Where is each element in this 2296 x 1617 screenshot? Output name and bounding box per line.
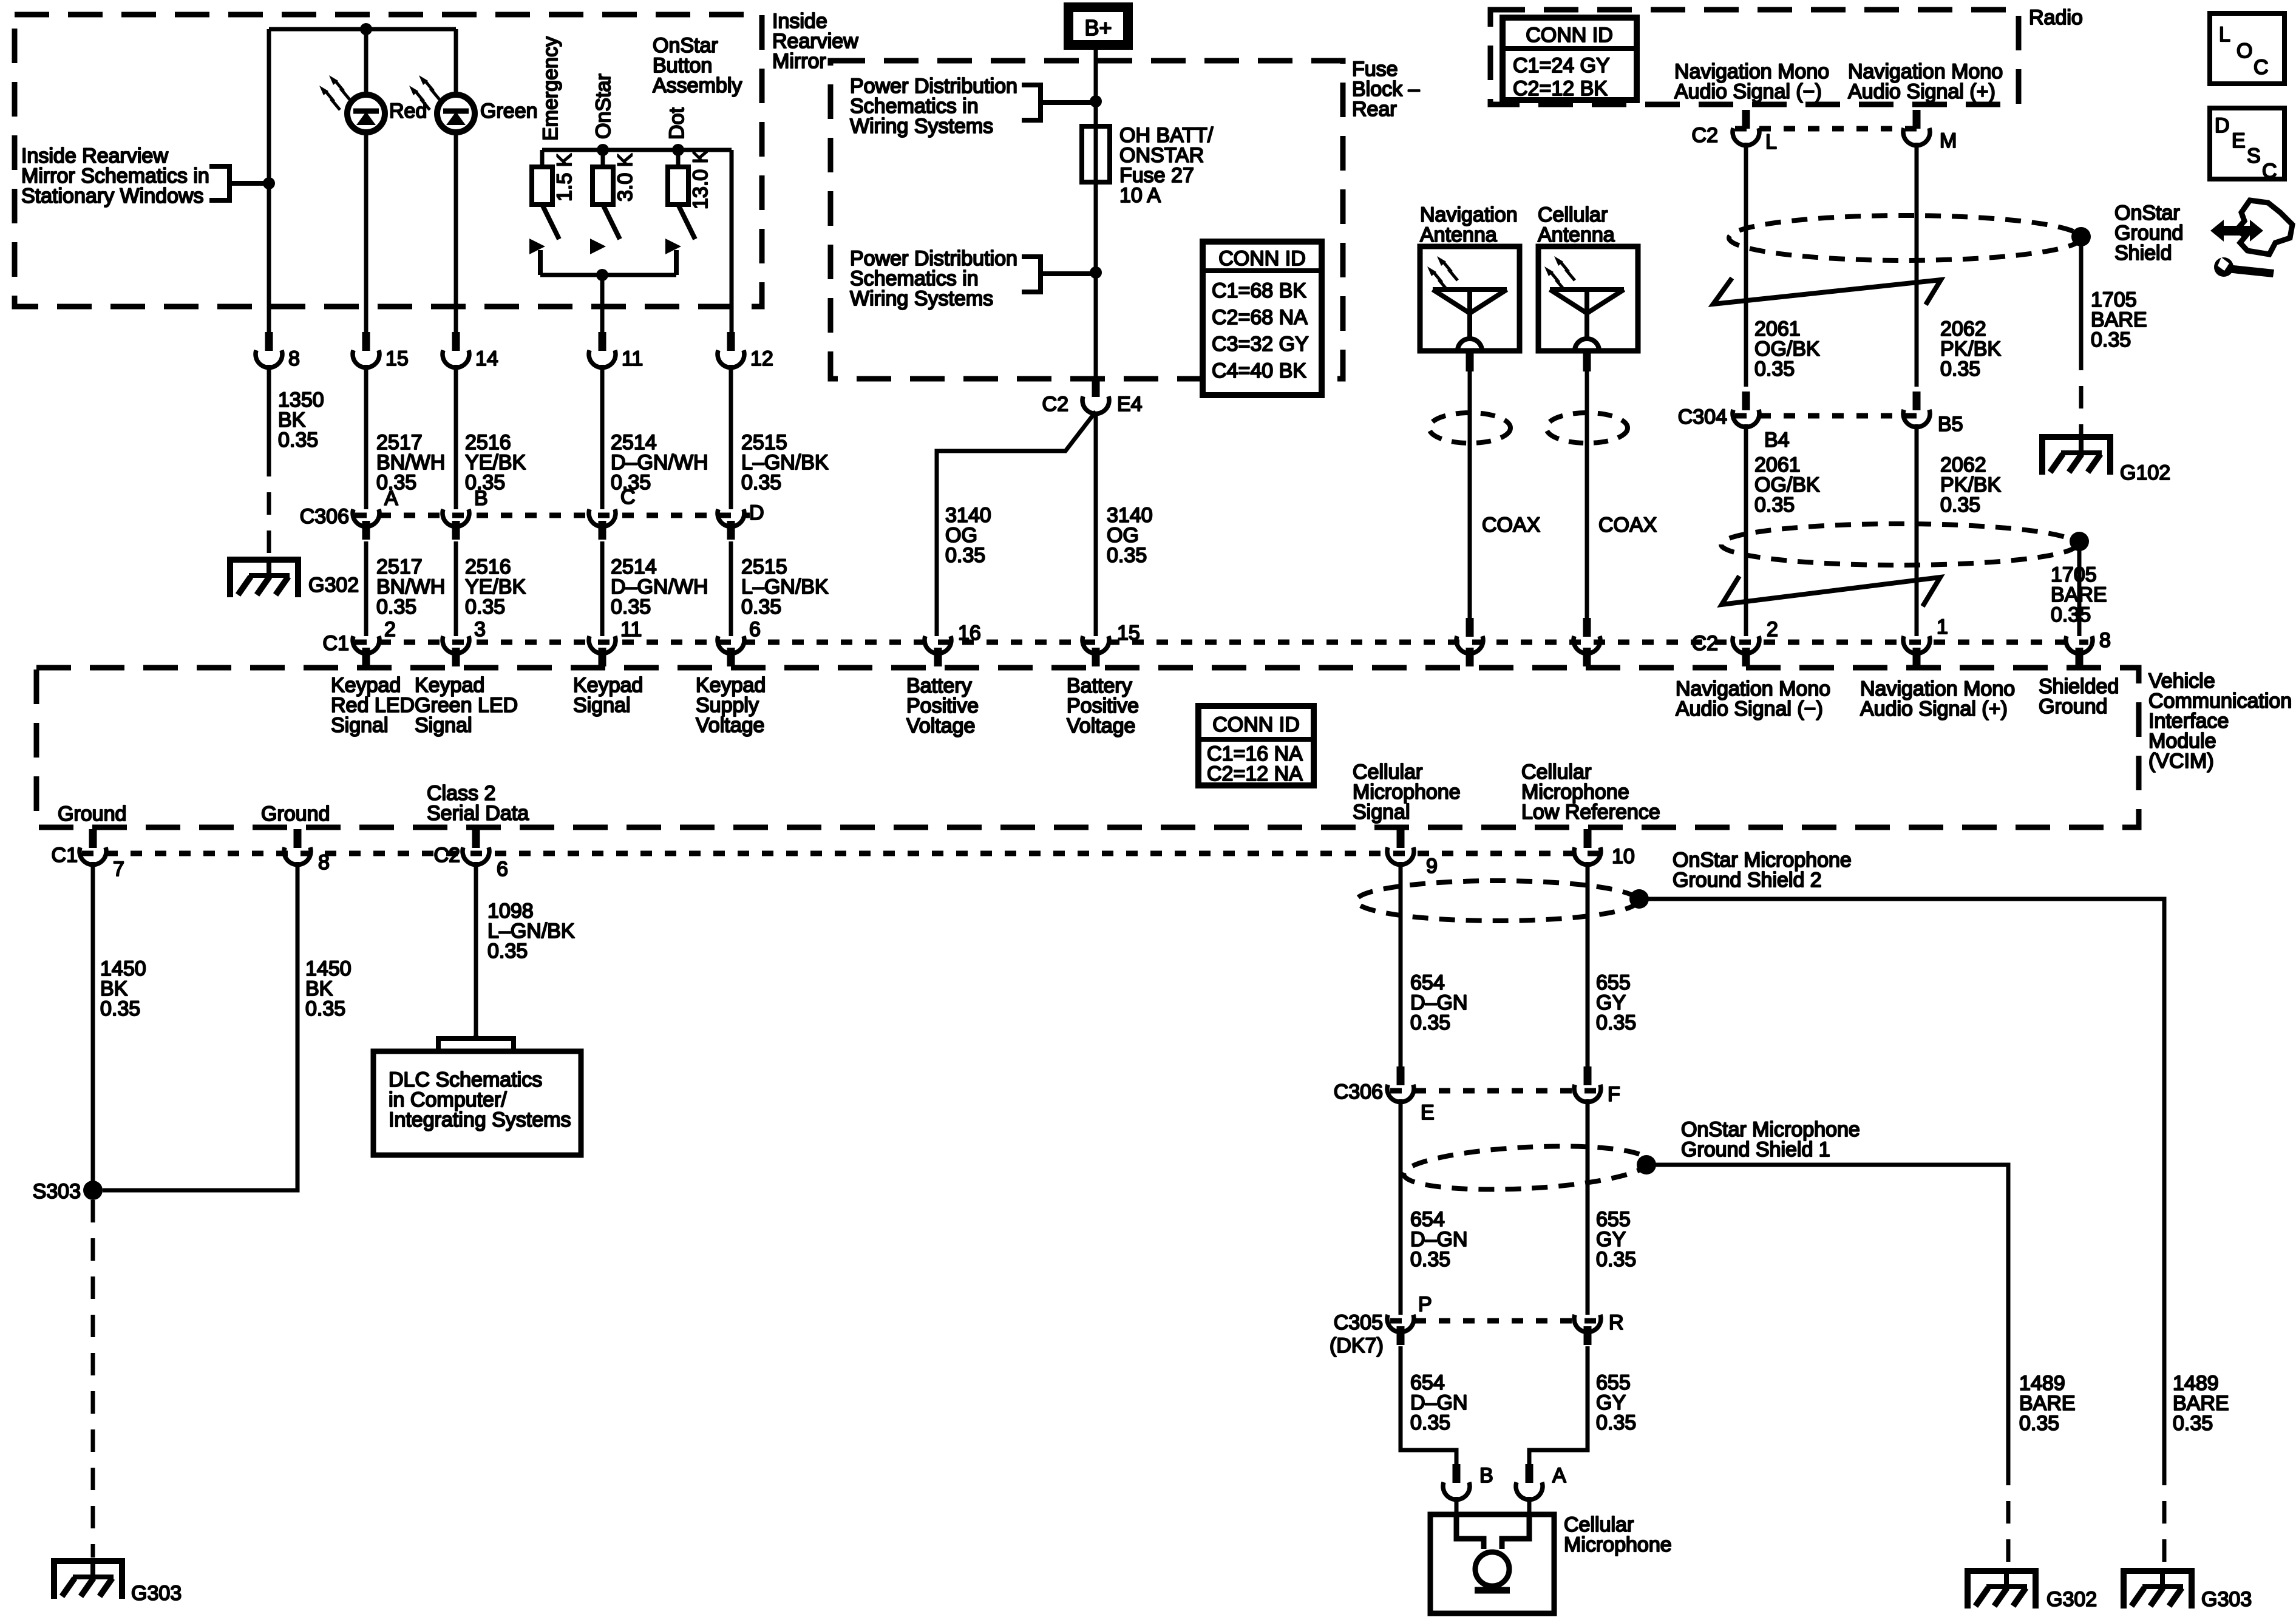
label wire 2516 YE/BK 0.35 (upper)	[465, 431, 526, 494]
svg-text:15: 15	[1117, 622, 1140, 645]
label wire 1350 BK 0.35	[278, 388, 324, 452]
wire 1450 BK left	[91, 862, 95, 1185]
label Fuse Block - Rear	[1352, 58, 1420, 121]
wire dot lower contact	[674, 250, 679, 275]
svg-text:Assembly: Assembly	[653, 74, 742, 97]
wire mic ground shield 1	[1646, 1165, 2008, 1463]
svg-text:S303: S303	[33, 1180, 81, 1203]
wire 1350 BK solid	[267, 365, 271, 454]
wire keypad supply drop	[730, 150, 734, 334]
connector pin 11	[589, 332, 643, 370]
label Keypad Supply Voltage	[696, 674, 766, 737]
label Cellular Microphone Low Reference	[1521, 761, 1660, 824]
svg-text:E: E	[1421, 1101, 1435, 1124]
wire 2061 upper	[1744, 143, 1748, 387]
svg-text:0.35: 0.35	[1107, 544, 1147, 567]
label wire 1489 BARE 0.35 (right)	[2173, 1372, 2229, 1435]
svg-text:8: 8	[2099, 629, 2111, 652]
label Keypad Signal	[573, 674, 643, 717]
svg-text:14: 14	[475, 347, 498, 370]
label Navigation Mono Audio Signal (+) top	[1848, 60, 2003, 103]
LED red emission arrows	[319, 75, 350, 110]
ground G102	[2042, 437, 2170, 484]
svg-text:0.35: 0.35	[1940, 493, 1980, 517]
node junction on top bus	[360, 23, 372, 35]
wire mic ground shield 2	[1639, 899, 2164, 1463]
wire 1705 BARE lower	[2077, 541, 2082, 636]
wire emergency resistor lead	[540, 150, 545, 167]
switch emergency arrow	[529, 239, 545, 254]
svg-text:C306: C306	[300, 505, 349, 528]
connector C2 pin 2	[1692, 618, 1778, 666]
wire top bus	[269, 27, 456, 32]
wire navigation coax	[1468, 351, 1472, 619]
connector coax ticks below	[1466, 648, 1591, 666]
node splice S303	[33, 1180, 103, 1203]
svg-text:L: L	[1765, 131, 1777, 154]
svg-text:CONN ID: CONN ID	[1526, 24, 1613, 47]
conn id table radio	[1503, 18, 1637, 100]
label OnStar Button Assembly	[653, 34, 742, 97]
svg-text:0.35: 0.35	[2051, 603, 2091, 626]
connector pin 9	[1387, 829, 1438, 878]
resistor 13.0 K	[668, 167, 688, 205]
label Shielded Ground	[2039, 675, 2119, 718]
label Ground 1	[58, 802, 126, 825]
label Emergency	[539, 36, 562, 141]
wire dot resistor lead	[676, 150, 681, 167]
connector mic A	[1516, 1464, 1566, 1500]
connector cellular coax	[1574, 618, 1600, 654]
antenna navigation	[1420, 246, 1520, 351]
label OnStar Microphone Ground Shield 1	[1681, 1118, 1860, 1161]
wire mic A lead	[1527, 1497, 1532, 1517]
label COAX 2	[1598, 514, 1657, 537]
label Dot	[665, 107, 688, 140]
connector pin 14	[443, 332, 498, 370]
ground G302 (mirror)	[230, 560, 359, 597]
svg-text:C: C	[620, 486, 636, 509]
label wire 2515 L-GN/BK 0.35 (lower)	[741, 555, 829, 619]
node bracket junction	[263, 177, 275, 189]
svg-text:B+: B+	[1084, 15, 1112, 40]
connector C1 pin 2	[353, 618, 396, 666]
B+ power symbol	[1068, 7, 1128, 45]
wire shield1 dashed	[2006, 1463, 2011, 1567]
wire switch top bus	[542, 148, 732, 152]
svg-text:G303: G303	[131, 1582, 182, 1605]
svg-text:B: B	[474, 487, 488, 510]
svg-text:0.35: 0.35	[2173, 1412, 2213, 1435]
svg-text:Signal: Signal	[415, 714, 472, 737]
connector C304 B5	[1903, 392, 1963, 436]
wire mic B lead	[1455, 1497, 1459, 1517]
svg-text:0.35: 0.35	[945, 544, 985, 567]
label wire 655 GY 0.35 (top)	[1596, 971, 1636, 1034]
svg-text:C306: C306	[1334, 1080, 1383, 1103]
svg-text:OnStar: OnStar	[592, 73, 615, 139]
label Cellular Antenna	[1538, 203, 1615, 246]
label Red	[389, 100, 427, 123]
label Inside Rearview Mirror	[772, 10, 858, 73]
conn id table fuse block	[1203, 242, 1322, 395]
switch onstar blade	[603, 205, 620, 239]
connector radio C2 M	[1903, 110, 1957, 152]
connector bottom C1 pin 8	[284, 829, 330, 874]
svg-text:10: 10	[1612, 845, 1635, 868]
svg-text:E4: E4	[1117, 393, 1143, 416]
label Radio	[2029, 6, 2083, 29]
svg-text:0.35: 0.35	[487, 940, 528, 963]
switch dot blade	[678, 205, 695, 239]
label Navigation Antenna	[1420, 203, 1518, 246]
wire 2062 upper	[1915, 143, 1919, 387]
connector row line C305 (P,R)	[1390, 1318, 1600, 1324]
connector C1 label	[323, 632, 349, 655]
switch emergency blade	[542, 205, 559, 239]
connector C1 pin 11	[589, 618, 642, 666]
svg-text:Voltage: Voltage	[696, 714, 764, 737]
wire 2517 upper	[364, 365, 369, 509]
connector row line bottom C1/C2 (7,8,6,9,10)	[82, 851, 1609, 856]
label wire 1450 BK 0.35 (left)	[100, 957, 146, 1020]
label OnStar Ground Shield	[2114, 202, 2183, 265]
label wire 654 D-GN 0.35 (top)	[1410, 971, 1467, 1034]
bracket power distribution 2	[1022, 257, 1096, 292]
switch onstar arrow	[590, 239, 606, 254]
connector mic B	[1443, 1464, 1493, 1500]
svg-text:0.35: 0.35	[1940, 358, 1980, 381]
svg-text:0.35: 0.35	[100, 997, 140, 1020]
svg-text:(VCIM): (VCIM)	[2148, 750, 2214, 773]
svg-text:Radio: Radio	[2029, 6, 2083, 29]
svg-text:COAX: COAX	[1482, 514, 1540, 537]
svg-text:G302: G302	[2046, 1588, 2097, 1611]
wire S303 to G303 dashed	[91, 1200, 95, 1558]
svg-text:L: L	[2219, 23, 2230, 46]
shield ellipse OnStar ground (upper)	[1729, 215, 2081, 260]
shield ellipse mic 2	[1356, 881, 1638, 921]
node OnStar ground shield tap 2	[2070, 532, 2089, 551]
svg-text:Ground Shield 2: Ground Shield 2	[1673, 869, 1822, 892]
DLC box	[373, 1051, 581, 1155]
svg-text:E: E	[2232, 129, 2246, 152]
svg-text:Audio Signal (−): Audio Signal (−)	[1676, 697, 1823, 720]
cellular microphone box	[1430, 1514, 1554, 1613]
connector C2 pin 1	[1903, 615, 1948, 666]
shield ellipse OnStar ground (lower)	[1721, 524, 2077, 565]
svg-text:C1=68 BK: C1=68 BK	[1212, 279, 1306, 302]
wire emergency lower contact	[538, 250, 543, 275]
connector bottom C2 pin 6	[434, 829, 508, 881]
svg-text:0.35: 0.35	[1596, 1011, 1636, 1034]
svg-text:Wiring Systems: Wiring Systems	[850, 115, 993, 138]
LED green emission arrows	[409, 75, 440, 110]
shield ellipse mic 1	[1402, 1141, 1649, 1195]
node onstar tap	[597, 144, 609, 156]
svg-text:Signal: Signal	[1353, 801, 1410, 824]
svg-text:D: D	[749, 501, 764, 524]
connector pin 16	[925, 622, 981, 666]
connector pin 15	[353, 332, 409, 370]
VCIM box	[36, 668, 2139, 827]
connector pin 8	[256, 332, 300, 370]
label wire 655 GY 0.35 (bottom)	[1596, 1371, 1636, 1434]
label Cellular Microphone	[1564, 1513, 1672, 1556]
label OnStar	[592, 73, 615, 139]
icon wrench	[2214, 257, 2274, 277]
label Class 2 Serial Data	[427, 782, 529, 825]
svg-text:(DK7): (DK7)	[1330, 1334, 1384, 1357]
wire 2517 lower	[364, 541, 369, 636]
label fuse	[1119, 124, 1214, 207]
wire battery 16 branch	[937, 412, 1096, 636]
svg-text:CONN ID: CONN ID	[1218, 247, 1306, 270]
svg-text:Serial Data: Serial Data	[427, 802, 529, 825]
svg-text:COAX: COAX	[1598, 514, 1657, 537]
svg-text:F: F	[1608, 1083, 1620, 1106]
svg-text:Microphone: Microphone	[1564, 1533, 1672, 1556]
svg-text:10 A: 10 A	[1119, 184, 1161, 207]
svg-text:Audio Signal (+): Audio Signal (+)	[1860, 697, 2008, 720]
svg-text:0.35: 0.35	[1410, 1011, 1450, 1034]
wire 2061 lower	[1744, 424, 1748, 636]
label wire 3140 OG 0.35 (left)	[945, 504, 991, 567]
connector C306 F	[1574, 1066, 1620, 1106]
DLC connector hat	[438, 1035, 514, 1051]
svg-text:0.35: 0.35	[305, 997, 345, 1020]
wire 2062 lower	[1915, 424, 1919, 636]
svg-text:8: 8	[288, 347, 300, 370]
connector pin 10	[1574, 829, 1635, 868]
ground G302 right	[1968, 1571, 2097, 1611]
label Ground 2	[261, 802, 330, 825]
svg-text:Integrating Systems: Integrating Systems	[389, 1108, 571, 1131]
label Cellular Microphone Signal	[1353, 761, 1461, 824]
svg-text:C1=24 GY: C1=24 GY	[1513, 54, 1610, 77]
label wire 1705 BARE 0.35 (upper)	[2091, 288, 2147, 351]
svg-text:16: 16	[958, 622, 981, 645]
svg-text:D: D	[2215, 114, 2230, 137]
connector C2 pin 8	[2066, 629, 2111, 666]
bracket to mirror schematics	[209, 166, 269, 200]
wire 655 upper	[1586, 862, 1590, 1085]
wire red LED upper	[364, 29, 369, 95]
label Keypad Green LED Signal	[415, 674, 518, 737]
wire battery 15 drop	[1094, 412, 1098, 636]
label wire 2062 PK/BK 0.35 (upper)	[1940, 317, 2001, 381]
wire 1705 BARE upper dashed	[2079, 348, 2084, 436]
svg-text:0.35: 0.35	[1596, 1248, 1636, 1271]
label OnStar Microphone Ground Shield 2	[1673, 849, 1852, 892]
bracket power distribution 1	[1022, 85, 1096, 120]
connector C306 pin D	[718, 501, 764, 540]
svg-text:Emergency: Emergency	[539, 36, 562, 141]
svg-text:C3=32 GY: C3=32 GY	[1212, 333, 1309, 356]
svg-text:Voltage: Voltage	[1067, 714, 1135, 737]
connector bottom C1 pin 7	[52, 829, 124, 881]
label DLC Schematics	[389, 1068, 571, 1131]
connector row line C306 (E,F)	[1390, 1088, 1600, 1094]
svg-text:Green: Green	[480, 100, 538, 123]
svg-text:11: 11	[620, 618, 642, 641]
connector C1 pin 3	[443, 618, 486, 666]
ground G303 right	[2124, 1571, 2252, 1611]
label Green	[480, 100, 538, 123]
svg-text:B4: B4	[1764, 429, 1790, 452]
LED red	[347, 95, 385, 132]
label wire 2061 OG/BK 0.35 (upper)	[1754, 317, 1820, 381]
connector C306 label	[300, 505, 349, 528]
label Navigation Mono Audio Signal (-) top	[1674, 60, 1829, 103]
svg-text:13.0 K: 13.0 K	[689, 149, 712, 209]
label Power Distribution 2	[850, 247, 1017, 310]
wire 655 lower	[1529, 1346, 1588, 1464]
svg-text:Stationary Windows: Stationary Windows	[21, 185, 203, 208]
label VCIM	[2148, 670, 2292, 773]
node OnStar ground shield tap	[2071, 227, 2091, 246]
wire onstar resistor lead	[601, 150, 605, 167]
label wire 2514 D-GN/WH 0.35 (upper)	[611, 431, 708, 494]
label wire 2515 L-GN/BK 0.35 (upper)	[741, 431, 829, 494]
svg-text:C1: C1	[323, 632, 349, 655]
svg-text:C2=12 NA: C2=12 NA	[1207, 762, 1303, 785]
svg-text:7: 7	[113, 858, 124, 881]
connector C306 pin B	[443, 487, 488, 540]
svg-text:8: 8	[318, 851, 330, 874]
wire red LED lower	[364, 132, 369, 334]
connector row line C306 (A-D)	[355, 513, 750, 518]
label Navigation Mono Audio Signal (-) bottom	[1676, 677, 1830, 720]
connector C306 E	[1334, 1066, 1435, 1124]
twisted pair symbol upper	[1713, 278, 1941, 305]
svg-text:G302: G302	[308, 574, 359, 597]
wire 1098 serial data	[474, 862, 478, 1035]
label wire 654 D-GN 0.35 (bottom)	[1410, 1371, 1467, 1434]
svg-text:Signal: Signal	[573, 694, 631, 717]
icon hand outline	[2237, 200, 2292, 254]
svg-text:Rear: Rear	[1352, 98, 1397, 121]
connector row line radio C2 (L,M)	[1735, 126, 1927, 132]
label Battery Positive Voltage 1	[906, 674, 979, 737]
node dot tap	[672, 144, 684, 156]
wire 2515 upper	[729, 365, 733, 509]
svg-text:G102: G102	[2120, 461, 2170, 484]
svg-text:C2: C2	[1042, 393, 1068, 416]
svg-text:A: A	[384, 487, 398, 510]
svg-text:6: 6	[749, 618, 761, 641]
label COAX 1	[1482, 514, 1540, 537]
svg-text:CONN ID: CONN ID	[1212, 713, 1300, 736]
node mic shield 2 tap	[1629, 889, 1649, 909]
connector radio C2 L	[1692, 110, 1777, 154]
connector C306 pin C	[589, 486, 636, 540]
svg-text:0.35: 0.35	[2091, 328, 2131, 351]
svg-text:0.35: 0.35	[1754, 358, 1795, 381]
antenna cellular	[1538, 246, 1638, 351]
svg-text:11: 11	[622, 347, 643, 370]
wire 1350 BK dashed to G302	[267, 454, 271, 558]
svg-text:C2: C2	[1692, 632, 1718, 655]
label wire 1489 BARE 0.35 (left)	[2019, 1372, 2076, 1435]
svg-text:3: 3	[474, 618, 486, 641]
svg-text:Audio Signal (+): Audio Signal (+)	[1848, 80, 1995, 103]
svg-text:9: 9	[1426, 855, 1438, 878]
wire switch bottom bus	[540, 273, 676, 277]
wire cellular coax	[1585, 351, 1589, 619]
svg-text:C305: C305	[1334, 1311, 1383, 1334]
node power tap 1	[1090, 95, 1102, 107]
svg-text:M: M	[1940, 129, 1957, 152]
label Keypad Red LED Signal	[331, 674, 415, 737]
svg-text:Low Reference: Low Reference	[1521, 801, 1660, 824]
wire keypad signal drop	[600, 275, 605, 334]
svg-text:0.35: 0.35	[611, 595, 651, 619]
shield ellipse cellular coax	[1546, 413, 1628, 443]
svg-text:C2: C2	[434, 844, 460, 867]
svg-text:0.35: 0.35	[1596, 1411, 1636, 1434]
label Power Distribution 1	[850, 75, 1017, 138]
svg-text:0.35: 0.35	[741, 595, 781, 619]
wire 1705 BARE upper solid	[2079, 237, 2084, 348]
connector C2 E4	[1042, 378, 1143, 416]
svg-text:C1: C1	[52, 844, 78, 867]
svg-text:0.35: 0.35	[1410, 1248, 1450, 1271]
svg-text:P: P	[1418, 1293, 1432, 1316]
label DK7	[1330, 1334, 1384, 1357]
svg-text:15: 15	[385, 347, 409, 370]
label wire 655 GY 0.35 (mid)	[1596, 1208, 1636, 1271]
label wire 2517 BN/WH 0.35 (lower)	[376, 555, 445, 619]
svg-text:G303: G303	[2201, 1588, 2252, 1611]
node switch output junction	[596, 269, 608, 281]
svg-text:A: A	[1552, 1464, 1566, 1487]
svg-text:C2=68 NA: C2=68 NA	[1212, 306, 1308, 329]
label wire 2061 OG/BK 0.35 (lower)	[1754, 453, 1820, 517]
wire 654 upper	[1399, 862, 1403, 1085]
svg-text:1: 1	[1937, 615, 1948, 639]
connector pin 15	[1082, 622, 1140, 666]
node mic shield 1 tap	[1637, 1155, 1656, 1175]
label 3.0 K	[614, 153, 637, 202]
svg-text:6: 6	[497, 858, 508, 881]
svg-text:O: O	[2237, 39, 2252, 63]
resistor 3.0 K	[593, 167, 613, 205]
wire 654 mid	[1399, 1099, 1403, 1315]
Radio box	[1490, 10, 2019, 104]
svg-text:0.35: 0.35	[465, 595, 505, 619]
connector C305 R	[1574, 1311, 1624, 1345]
svg-text:0.35: 0.35	[741, 471, 781, 494]
node power tap 2	[1090, 266, 1102, 279]
svg-text:0.35: 0.35	[376, 595, 416, 619]
label 13.0 K	[689, 149, 712, 209]
icon double arrow	[2210, 220, 2263, 242]
svg-text:R: R	[1609, 1311, 1624, 1334]
LOC box	[2210, 13, 2284, 84]
svg-text:Wiring Systems: Wiring Systems	[850, 287, 993, 310]
connector C305 P	[1334, 1293, 1432, 1345]
DESC box	[2210, 108, 2284, 183]
connector pin 12	[718, 332, 773, 370]
svg-text:B: B	[1479, 1464, 1493, 1487]
label 1.5 K	[553, 153, 576, 202]
wire 655 mid	[1586, 1099, 1590, 1315]
wire green LED lower	[454, 132, 458, 334]
wire B+ feed	[1094, 50, 1098, 382]
Fuse Block - Rear box	[830, 61, 1343, 379]
svg-text:0.35: 0.35	[278, 429, 318, 452]
